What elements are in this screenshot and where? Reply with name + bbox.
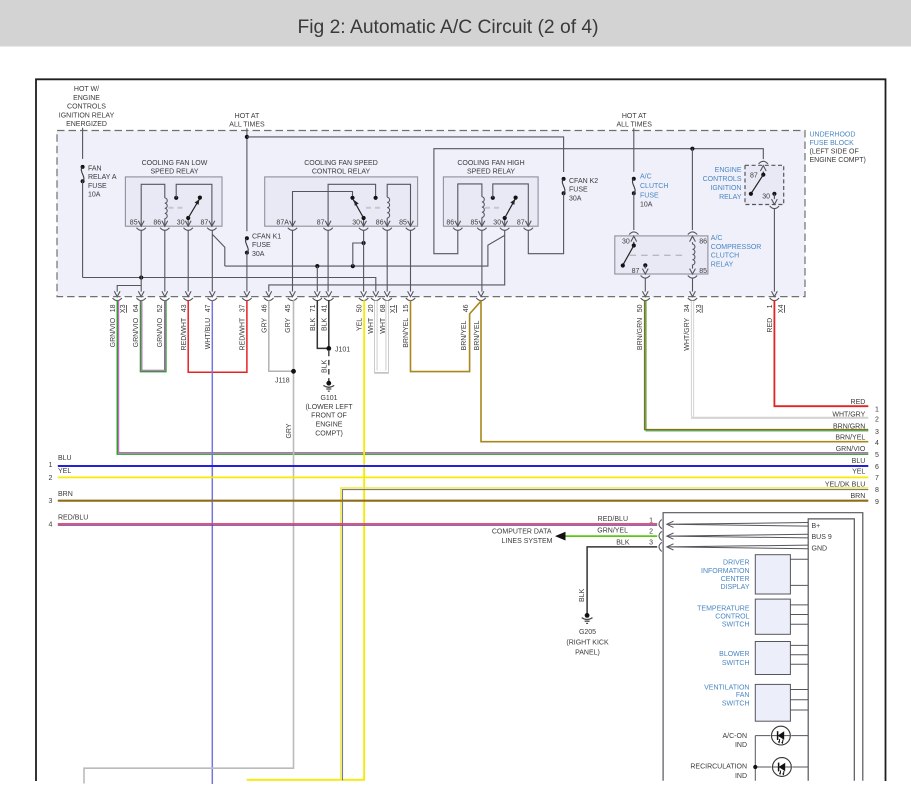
K-ctl pin labels 87A 87 30 86 85 (276, 220, 407, 227)
RECIRCULATION IND lamp (690, 758, 808, 780)
svg-text:50: 50 (637, 304, 644, 312)
wire K-ign 30 output to exit RED X4 (773, 208, 775, 291)
module internal arrow BUS 9 (pin 2) (667, 533, 808, 539)
svg-text:CLUTCH: CLUTCH (711, 253, 739, 260)
svg-text:85: 85 (130, 220, 138, 227)
wire GRN/YEL data line with arrow to COMPUTER DATA LINES SYSTEM (565, 535, 657, 537)
relay K-ctl: COOLING FAN SPEED CONTROL RELAY (265, 160, 418, 226)
svg-text:X3: X3 (120, 304, 127, 313)
wire BRN/GRN 50 to right-edge row 3 (645, 300, 869, 431)
K-ign switch 87 / 30 (749, 161, 779, 208)
wire fan bus rail (225, 235, 505, 266)
svg-text:BRN/YEL: BRN/YEL (474, 320, 481, 350)
svg-text:HOT W/: HOT W/ (74, 86, 99, 93)
svg-text:46: 46 (463, 304, 470, 312)
K-ctl pin connectors (288, 221, 415, 231)
wire GRY 45 down page, elbow at bottom (84, 300, 294, 783)
junction dot fan bus / K-ctl 30 (351, 264, 355, 268)
wire top bus to CFAN K2 fuse (247, 137, 564, 172)
svg-text:SWITCH: SWITCH (722, 660, 750, 667)
left-edge wire labels and numbers (49, 455, 89, 528)
svg-text:87: 87 (517, 220, 525, 227)
svg-text:71: 71 (310, 304, 317, 312)
HVAC control module outer box (663, 513, 863, 781)
svg-text:(RIGHT KICK: (RIGHT KICK (566, 639, 609, 646)
svg-text:BLK: BLK (579, 588, 586, 602)
node HOT W/ ENGINE CONTROLS IGNITION RELAY ENERGIZED (59, 86, 115, 128)
wire RED/WHT 43-37 U-link (188, 300, 247, 372)
svg-text:GRN/VIO: GRN/VIO (157, 317, 164, 347)
svg-text:ENGINE: ENGINE (316, 422, 343, 429)
svg-text:IND: IND (735, 742, 747, 749)
svg-text:GND: GND (812, 545, 828, 552)
svg-text:CFAN K2: CFAN K2 (569, 178, 598, 185)
K-low pin labels 85 86 30 87 (130, 220, 209, 227)
wire A/C fuse output to K-acc pin 30 (633, 193, 635, 230)
relay K-high: COOLING FAN HIGH SPEED RELAY (443, 160, 538, 226)
svg-text:4: 4 (49, 521, 53, 528)
svg-text:RED/BLU: RED/BLU (58, 515, 88, 522)
wire BLU row 6 (58, 465, 869, 467)
svg-text:B+: B+ (812, 523, 821, 530)
svg-text:GRN/VIO: GRN/VIO (133, 317, 140, 347)
VENTILATION FAN SWITCH block (704, 684, 808, 721)
wire YEL/DK BLU row 8 from right edge down page (341, 488, 868, 781)
svg-text:WHT/GRY: WHT/GRY (684, 317, 691, 350)
svg-text:A/C: A/C (640, 174, 652, 181)
wire GRN/VIO 64-52 U-link (141, 300, 166, 371)
svg-text:ENGINE: ENGINE (715, 167, 742, 174)
svg-text:64: 64 (133, 304, 140, 312)
wire K-high 85 to exit BRN/YEL 46 (481, 230, 483, 292)
svg-text:37: 37 (240, 304, 247, 312)
svg-text:HOT AT: HOT AT (622, 113, 647, 120)
svg-text:BRN/YEL: BRN/YEL (835, 435, 865, 442)
svg-text:87: 87 (750, 172, 758, 179)
svg-text:1: 1 (875, 406, 879, 413)
svg-text:86: 86 (699, 239, 707, 246)
svg-text:ENGINE COMPT): ENGINE COMPT) (810, 157, 866, 164)
svg-text:87: 87 (317, 220, 325, 227)
wire HOT AT right down to A/C CLUTCH fuse (633, 128, 635, 172)
svg-text:X1: X1 (390, 304, 397, 313)
wire K-high 30 down to H2 rail (269, 230, 505, 292)
svg-text:LINES SYSTEM: LINES SYSTEM (502, 538, 553, 545)
svg-text:RELAY: RELAY (711, 262, 734, 269)
wire WHT 20-68 U-link (376, 301, 387, 373)
K-ctl switch blade pin 30 (353, 200, 384, 226)
wire K-ctl 85 to exit BRN/YEL 15 (410, 230, 412, 292)
svg-text:BLU: BLU (852, 458, 866, 465)
svg-text:47: 47 (205, 304, 212, 312)
svg-text:FRONT OF: FRONT OF (311, 413, 347, 420)
wire YEL 50 down page, elbow at bottom (247, 300, 365, 780)
svg-text:(LEFT SIDE OF: (LEFT SIDE OF (810, 149, 859, 156)
svg-text:INFORMATION: INFORMATION (701, 568, 749, 575)
wire BLK dashed link J101 to G101 (328, 351, 330, 383)
svg-text:BLK: BLK (321, 359, 328, 373)
svg-text:BRN/YEL: BRN/YEL (461, 320, 468, 350)
underhood fuse block dashed box (57, 131, 805, 297)
svg-text:FUSE BLOCK: FUSE BLOCK (810, 140, 855, 147)
svg-text:20: 20 (368, 304, 375, 312)
underlines for X3 X1 X3 X4 connector labels (126, 305, 784, 313)
module inner bus box B+/BUS 9/GND (808, 519, 854, 781)
svg-text:CONTROL RELAY: CONTROL RELAY (312, 168, 371, 175)
svg-text:BRN/GRN: BRN/GRN (833, 423, 865, 430)
svg-text:RED/BLU: RED/BLU (598, 516, 628, 523)
svg-text:3: 3 (49, 498, 53, 505)
junction dot top bus (245, 135, 249, 139)
svg-text:4: 4 (875, 440, 879, 447)
junction dot H1 / K-low 85 (139, 275, 143, 279)
junction J101 (326, 346, 331, 351)
svg-text:34: 34 (684, 304, 691, 312)
wire fan bus dot to exit BLK 71 (316, 266, 318, 292)
svg-text:ALL TIMES: ALL TIMES (229, 122, 265, 129)
svg-text:ENGINE: ENGINE (73, 95, 100, 102)
right-edge wire row labels (825, 399, 866, 500)
ground G101 (305, 381, 353, 437)
wire K-low 85 down with branch to exits 18 and 64 (117, 230, 141, 292)
wire K-low 30 to exit RED/WHT 43 (187, 230, 189, 292)
svg-text:2: 2 (875, 416, 879, 423)
svg-text:7: 7 (875, 475, 879, 482)
svg-text:1: 1 (49, 462, 53, 469)
K-ctl contact 87 path (328, 184, 378, 226)
wire K-ctl 30 jog to fan bus (353, 243, 364, 266)
svg-text:10A: 10A (88, 192, 101, 199)
svg-text:FAN: FAN (88, 165, 102, 172)
svg-text:PANEL): PANEL) (575, 649, 600, 656)
svg-text:5: 5 (875, 452, 879, 459)
wire BRN/YEL 46 to right-edge row 4 (481, 300, 868, 442)
svg-text:COMPRESSOR: COMPRESSOR (711, 244, 762, 251)
connector cups at module left edge pins 1-3 (659, 520, 662, 552)
wire CFAN K1 output to exit RED/WHT 37 (246, 253, 248, 292)
wire CFAN K2 output to K-high 87 (528, 193, 563, 253)
svg-text:30: 30 (493, 220, 501, 227)
svg-text:41: 41 (321, 304, 328, 312)
node HOT AT ALL TIMES (right) (616, 113, 652, 129)
svg-text:87: 87 (632, 268, 640, 275)
svg-text:GRY: GRY (261, 317, 268, 332)
wire H1 rail to WHT 20 exit (83, 278, 376, 292)
K-low coil (pins 85-86) (141, 184, 167, 226)
svg-text:COMPUTER DATA: COMPUTER DATA (492, 528, 552, 535)
fuse FAN RELAY A FUSE 10A (81, 165, 117, 199)
wire K-low 87 diagonal branch to fan bus (212, 234, 225, 266)
wire K-acc 87 output to exit BRN/GRN 50 (644, 278, 646, 292)
svg-text:WHT: WHT (380, 317, 387, 334)
K-high switch (pins 30-87) (485, 184, 528, 226)
svg-text:2: 2 (49, 475, 53, 482)
UNDERHOOD FUSE BLOCK label (810, 132, 866, 164)
svg-text:YEL/DK BLU: YEL/DK BLU (825, 481, 865, 488)
svg-text:30: 30 (622, 239, 630, 246)
svg-text:1: 1 (649, 518, 653, 525)
svg-text:BRN: BRN (851, 493, 866, 500)
svg-text:RECIRCULATION: RECIRCULATION (690, 763, 747, 770)
svg-text:CONTROLS: CONTROLS (703, 176, 742, 183)
svg-text:RELAY: RELAY (719, 194, 742, 201)
fuse CFAN K1 FUSE 30A (245, 233, 281, 258)
svg-text:CONTROL: CONTROL (715, 614, 749, 621)
K-high pin labels 86 85 30 87 (446, 220, 524, 227)
svg-text:FUSE: FUSE (88, 183, 107, 190)
svg-text:85: 85 (399, 220, 407, 227)
wire K-low 87 to exit WHT/BLU 47 (211, 230, 213, 292)
svg-text:ALL TIMES: ALL TIMES (616, 122, 652, 129)
svg-text:1: 1 (767, 304, 774, 308)
DRIVER INFORMATION CENTER DISPLAY block (701, 555, 808, 594)
wire WHT/GRY 34 to right-edge row 2 (691, 301, 868, 418)
svg-text:COOLING FAN HIGH: COOLING FAN HIGH (457, 160, 524, 167)
wire RED/BLU row 4-left to connector pin 1 (58, 524, 657, 526)
wire WHT/BLU 47 (211, 300, 213, 784)
svg-text:A/C-ON: A/C-ON (723, 733, 748, 740)
svg-text:IND: IND (735, 773, 747, 780)
relay K-low: COOLING FAN LOW SPEED RELAY (125, 160, 222, 226)
svg-text:SWITCH: SWITCH (722, 621, 750, 628)
svg-text:85: 85 (471, 220, 479, 227)
svg-text:6: 6 (875, 464, 879, 471)
wire fuse output down to H1 rail (82, 181, 84, 277)
svg-text:RED/WHT: RED/WHT (181, 317, 188, 350)
K-low switch (pins 30-87) (169, 184, 212, 226)
svg-text:86: 86 (153, 220, 161, 227)
fuse A/C CLUTCH FUSE 10A (632, 174, 669, 209)
svg-text:30A: 30A (252, 251, 265, 258)
K-low pin connectors (137, 221, 217, 231)
svg-text:85: 85 (699, 268, 707, 275)
BLOWER SWITCH block (719, 642, 808, 675)
svg-text:RED/WHT: RED/WHT (240, 317, 247, 350)
wire labels (rotated) at fuse-block exits (110, 304, 785, 350)
wire K-ctl 30 to exit YEL 50 (363, 230, 365, 292)
wire BLK 41 to junction J101 (328, 300, 330, 348)
svg-text:BUS 9: BUS 9 (812, 534, 832, 541)
wire K-ctl 86 to exit WHT 68 (386, 230, 388, 292)
svg-text:TEMPERATURE: TEMPERATURE (697, 606, 750, 613)
wire BLK from connector pin 3 to ground G205 (587, 547, 657, 614)
svg-text:RED: RED (851, 399, 866, 406)
svg-text:VENTILATION: VENTILATION (704, 685, 749, 692)
wire K-acc 85 output to exit WHT/GRY 34 (692, 278, 694, 292)
wire HOT AT down to CFAN K1 fuse (246, 128, 248, 231)
K-high pin connectors (453, 221, 533, 231)
svg-text:FUSE: FUSE (640, 192, 659, 199)
K-acc switch pin 30 (top) / 87 (bottom) (621, 232, 687, 278)
svg-text:IGNITION: IGNITION (710, 185, 741, 192)
svg-text:WHT/BLU: WHT/BLU (205, 318, 212, 350)
wire GRY 46 to junction J118 (269, 300, 294, 371)
svg-text:86: 86 (376, 220, 384, 227)
svg-text:18: 18 (110, 304, 117, 312)
svg-text:68: 68 (380, 304, 387, 312)
svg-text:CLUTCH: CLUTCH (640, 183, 668, 190)
relay K-acc: A/C COMPRESSOR CLUTCH RELAY (615, 235, 762, 274)
junction dot fan bus / BLK 71 (315, 264, 319, 268)
svg-text:CONTROLS: CONTROLS (67, 104, 106, 111)
svg-text:HOT AT: HOT AT (235, 113, 260, 120)
svg-text:J118: J118 (275, 378, 290, 385)
svg-text:(LOWER LEFT: (LOWER LEFT (305, 404, 353, 411)
svg-text:BRN: BRN (58, 491, 73, 498)
svg-text:WHT: WHT (368, 317, 375, 334)
wire K-ctl 87A to exit GRY 45 (292, 230, 294, 292)
svg-text:UNDERHOOD: UNDERHOOD (810, 132, 856, 139)
svg-text:2: 2 (649, 529, 653, 536)
svg-text:CFAN K1: CFAN K1 (252, 233, 281, 240)
svg-text:GRY: GRY (286, 423, 293, 438)
svg-text:X3: X3 (696, 304, 703, 313)
svg-text:YEL: YEL (356, 318, 363, 331)
node HOT AT ALL TIMES (left) (229, 113, 265, 129)
wire linking IND lamps (754, 736, 756, 781)
wire RED X4 to right-edge row 1 (774, 300, 868, 406)
svg-text:50: 50 (356, 304, 363, 312)
svg-text:15: 15 (403, 304, 410, 312)
svg-text:45: 45 (285, 304, 292, 312)
svg-text:87A: 87A (276, 220, 289, 227)
K-high coil (pins 86-85) (458, 184, 485, 226)
junction dot K-ctl 30 branch (362, 241, 366, 245)
svg-text:YEL: YEL (852, 469, 865, 476)
svg-text:FAN: FAN (736, 692, 750, 699)
labels at data-line connector pins (597, 516, 653, 547)
svg-text:BLK: BLK (310, 317, 317, 331)
wire BRN row 9 (58, 500, 869, 502)
svg-text:CENTER: CENTER (721, 576, 750, 583)
svg-text:3: 3 (649, 540, 653, 547)
svg-text:RED: RED (767, 318, 774, 333)
wire K-low 86 to exit GRN/VIO 52 (164, 230, 166, 292)
svg-text:Fig 2: Automatic A/C Circuit (: Fig 2: Automatic A/C Circuit (2 of 4) (297, 17, 598, 38)
wire BRN/YEL 15-46 U-link (411, 300, 481, 371)
svg-text:SPEED RELAY: SPEED RELAY (467, 168, 515, 175)
right-edge wire numbers 1-9 (875, 406, 879, 506)
A/C-ON IND lamp (723, 726, 809, 749)
K-acc coil pin 86 (top) / 85 (bottom) (688, 232, 707, 278)
svg-text:52: 52 (157, 304, 164, 312)
ground G205 (566, 613, 609, 656)
svg-text:COOLING FAN SPEED: COOLING FAN SPEED (304, 160, 378, 167)
module internal arrow B+ (pin 1) (667, 521, 808, 527)
title banner (0, 0, 911, 47)
TEMPERATURE CONTROL SWITCH block (697, 599, 808, 634)
wire K-ctl 87 to exit BLK 41 (327, 230, 329, 292)
svg-text:DISPLAY: DISPLAY (720, 584, 749, 591)
wire from HOT W/ to fan relay a fuse (82, 128, 84, 159)
svg-text:43: 43 (181, 304, 188, 312)
svg-text:COOLING FAN LOW: COOLING FAN LOW (142, 160, 208, 167)
svg-text:A/C: A/C (711, 235, 723, 242)
svg-text:ENERGIZED: ENERGIZED (66, 121, 107, 128)
svg-text:10A: 10A (640, 202, 653, 209)
svg-text:DRIVER: DRIVER (723, 559, 749, 566)
wire YEL row 7 (58, 476, 869, 478)
svg-text:30: 30 (762, 194, 770, 201)
wire BLK 71 to junction J101 (317, 300, 329, 348)
svg-text:46: 46 (261, 304, 268, 312)
svg-text:GRN/YEL: GRN/YEL (597, 527, 628, 534)
svg-text:G205: G205 (579, 629, 596, 636)
svg-text:BLU: BLU (58, 455, 72, 462)
junction J118 (291, 369, 296, 374)
svg-text:BLK: BLK (616, 539, 630, 546)
svg-text:GRN/VIO: GRN/VIO (110, 317, 117, 347)
wire GRN/VIO 18 X3 (exit to right-edge row 5) (117, 300, 868, 454)
svg-text:G101: G101 (320, 395, 337, 402)
svg-text:WHT/GRY: WHT/GRY (832, 412, 865, 419)
svg-text:8: 8 (875, 487, 879, 494)
svg-text:RELAY A: RELAY A (88, 174, 117, 181)
svg-text:BRN/YEL: BRN/YEL (403, 318, 410, 348)
junction dot A/C bus / K-acc 86 (690, 147, 694, 151)
svg-text:GRY: GRY (285, 317, 292, 332)
svg-text:X4: X4 (778, 304, 785, 313)
svg-text:GRN/VIO: GRN/VIO (836, 446, 866, 453)
svg-text:IGNITION RELAY: IGNITION RELAY (59, 112, 115, 119)
svg-text:87: 87 (201, 220, 209, 227)
fuse CFAN K2 FUSE 30A (562, 177, 599, 202)
svg-text:FUSE: FUSE (252, 242, 271, 249)
svg-text:9: 9 (875, 499, 879, 506)
svg-text:86: 86 (446, 220, 454, 227)
relay K-ign: ENGINE CONTROLS IGNITION RELAY (dashed) (703, 165, 784, 204)
svg-text:BLOWER: BLOWER (719, 651, 749, 658)
module internal arrow GND (pin 3) (667, 544, 808, 550)
svg-text:3: 3 (875, 429, 879, 436)
svg-text:COMPT): COMPT) (315, 430, 343, 437)
svg-text:BRN/GRN: BRN/GRN (637, 318, 644, 350)
svg-text:YEL: YEL (58, 468, 71, 475)
svg-text:FUSE: FUSE (569, 187, 588, 194)
K-ctl coil (pins 86-85) (387, 184, 410, 226)
svg-text:30A: 30A (569, 195, 582, 202)
wire K-high 86 to A/C bus rail (434, 149, 763, 254)
svg-text:SWITCH: SWITCH (722, 701, 750, 708)
svg-text:30: 30 (177, 220, 185, 227)
svg-text:SPEED RELAY: SPEED RELAY (150, 168, 198, 175)
exit connectors along dashed edge (113, 291, 780, 300)
svg-text:BLK: BLK (321, 317, 328, 331)
K-ctl contact 87A path (293, 192, 355, 227)
wire A/C bus dot down to K-acc coil 86 (691, 149, 693, 230)
svg-text:30: 30 (352, 220, 360, 227)
svg-text:J101: J101 (335, 346, 350, 353)
